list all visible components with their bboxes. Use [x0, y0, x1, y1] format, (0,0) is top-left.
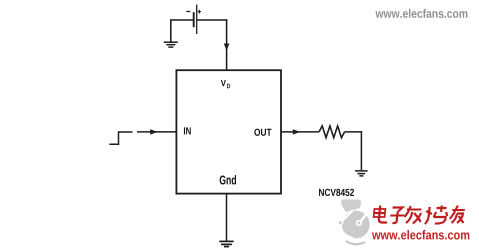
battery B1 positive plate	[196, 5, 198, 35]
wire corner down to ground	[170, 19, 172, 42]
wire down to ground right	[360, 131, 362, 170]
pin label OUT	[254, 129, 260, 136]
IC box U1	[176, 70, 281, 193]
wire OUT to resistor	[281, 131, 319, 133]
wire down into Vd pin	[226, 19, 228, 69]
ground bottom	[219, 241, 233, 246]
part number NCV8452	[319, 189, 324, 196]
resistor R load	[319, 126, 345, 138]
input step source	[109, 132, 132, 144]
char you	[449, 206, 465, 224]
ground battery	[164, 42, 178, 47]
watermark url bottom right	[372, 233, 381, 240]
wire resistor to corner	[345, 131, 363, 133]
wire battery left to corner	[170, 19, 194, 21]
wire battery right to corner	[197, 19, 228, 21]
wire into IN	[137, 131, 176, 133]
char dian	[373, 206, 389, 223]
char zi	[389, 208, 405, 224]
battery B1 negative plate	[193, 12, 195, 27]
arrow into IN	[150, 129, 157, 134]
arrow out of OUT	[293, 129, 300, 134]
pin label Vd subscript D	[227, 84, 230, 88]
pin label IN	[184, 127, 185, 134]
ground right	[355, 171, 368, 176]
battery plus label	[198, 10, 201, 14]
arrow into Vd	[224, 44, 230, 51]
pin label Vd	[221, 80, 226, 86]
battery minus label	[186, 11, 190, 13]
pin label Gnd	[220, 175, 226, 184]
watermark url top right	[375, 11, 383, 18]
wire Gnd pin down	[226, 194, 228, 241]
watermark logo disc bottom right	[337, 200, 370, 245]
char fa	[404, 206, 422, 224]
char shao	[425, 206, 448, 225]
watermark chinese characters (stylized strokes)	[373, 206, 465, 225]
